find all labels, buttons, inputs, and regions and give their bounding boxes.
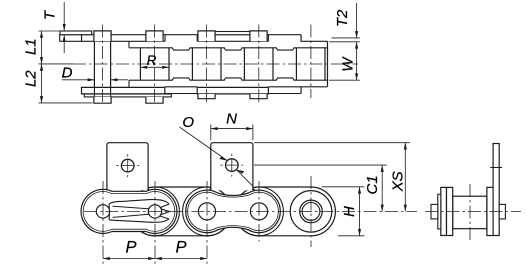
- pin cap bottom 1: [94, 97, 111, 103]
- dim XS line: [404, 143, 406, 212]
- clip plate strip near side: [84, 94, 171, 97]
- inner link plate 4-5: [235, 187, 336, 236]
- dim H extension lines: [322, 186, 365, 188]
- pin 3 vertical centerline: [206, 181, 208, 264]
- svg-text:XS: XS: [389, 171, 406, 192]
- roller at pin 4: [244, 48, 273, 80]
- arrowhead W top: [355, 42, 358, 49]
- pin 4 vertical centerline: [258, 181, 260, 242]
- svg-text:C1: C1: [364, 175, 381, 194]
- right inner plate: [487, 187, 493, 235]
- clip washer: [438, 194, 441, 229]
- pin 1 vertical centerline: [102, 181, 104, 264]
- bend line on attachment: [490, 167, 502, 169]
- wire: top outer silhouette line: [82, 34, 302, 36]
- pin 1 body: [93, 41, 95, 86]
- tab 2 hole: [226, 159, 239, 172]
- wire: inner plate left end stubs: [128, 41, 130, 48]
- wire: near outer plate 3-4: [197, 87, 268, 94]
- arrowhead T top: [63, 24, 66, 31]
- svg-text:P: P: [125, 238, 136, 256]
- centerlines of top view: [73, 25, 358, 105]
- pin cap bottom 3: [198, 94, 215, 99]
- right pin end: [499, 204, 505, 219]
- arrowhead H top: [358, 187, 361, 194]
- pin cap top 2: [146, 31, 163, 41]
- pin 3 circle: [198, 203, 215, 220]
- pin 3 centerline: [206, 25, 208, 105]
- inner plate end contour arcs at pins 2,3,4: [131, 187, 180, 236]
- arrowhead L2 bottom: [40, 96, 43, 103]
- roller at pin 3: [192, 48, 221, 80]
- arrowhead O upper: [219, 156, 227, 160]
- bent attachment plate: [493, 144, 499, 236]
- arrowhead R left: [140, 66, 147, 69]
- tab 2 leg flares: [209, 188, 256, 191]
- wire: step down at right (top): [301, 35, 327, 42]
- clip slot lines: [113, 206, 149, 217]
- arrowhead R right: [162, 66, 169, 69]
- svg-text:L1: L1: [23, 38, 40, 55]
- left inner plate: [447, 187, 453, 235]
- pin 5 vertical centerline: [310, 176, 312, 247]
- bushing at pin 5: [300, 200, 323, 223]
- arrowhead N left: [211, 127, 218, 130]
- dim W line: [356, 42, 358, 80]
- svg-text:P: P: [175, 238, 186, 256]
- arrowhead C1 bottom: [381, 205, 384, 212]
- arrowhead XS top: [404, 143, 407, 150]
- svg-text:R: R: [147, 53, 157, 68]
- end view vertical centerline: [469, 184, 471, 240]
- dim N extension lines: [210, 125, 212, 141]
- roller at pin 2: [140, 48, 169, 80]
- arrowhead XS bottom: [404, 205, 407, 212]
- dim T2 lines: [356, 3, 358, 38]
- centerlines end view: [425, 184, 521, 240]
- pin 2 centerline: [154, 25, 156, 105]
- dim P line: [103, 258, 207, 260]
- left pin end: [431, 204, 438, 219]
- dim D lines: [62, 79, 94, 81]
- svg-text:N: N: [226, 111, 237, 128]
- dim N line: [211, 128, 253, 130]
- arrowhead D right: [111, 78, 118, 81]
- end view horizontal centerline: [425, 211, 521, 213]
- centerlines side view: [84, 176, 417, 264]
- outer attachment link plate 3-4 (waisted): [186, 190, 281, 233]
- dim T lines: [63, 2, 65, 31]
- tab 1 hole: [121, 159, 134, 172]
- svg-text:H: H: [341, 206, 358, 217]
- svg-text:W: W: [340, 56, 357, 72]
- pin 1 centerline: [102, 25, 104, 105]
- dim C1 extension line: [254, 164, 387, 166]
- arrowhead H bottom: [358, 229, 361, 236]
- dim R line: [141, 66, 169, 68]
- tab 1 hole crosshair: [116, 165, 139, 167]
- dim L2 line: [41, 64, 43, 103]
- tab 1 leg flares: [105, 188, 151, 191]
- arrowhead C1 top: [381, 165, 384, 172]
- pin cap top 3: [198, 31, 215, 41]
- dim C1 line: [381, 165, 383, 211]
- pin 1 through bottom band and clip strip: [94, 87, 110, 97]
- arrowhead W bottom: [355, 73, 358, 80]
- labels side view: [125, 111, 406, 257]
- wire: bottom inner face line with waist dips: [129, 78, 328, 80]
- arrowhead T bottom: [63, 35, 66, 42]
- pin cap bottom 2: [146, 97, 163, 103]
- wire: near outer plate 1-2: [82, 87, 165, 94]
- arrowhead N right: [246, 127, 253, 130]
- wire: right end vertical edge of inner plate: [327, 41, 329, 86]
- left tab strip edge-on: [60, 31, 92, 35]
- pin 5 centerline: [310, 25, 312, 99]
- dim L1 line: [41, 31, 43, 64]
- wire: plate left end edge: [81, 35, 83, 42]
- spring clip on link 1-2: [109, 200, 169, 223]
- pin 2 vertical centerline: [154, 181, 156, 264]
- arrowhead P2 right: [200, 257, 207, 260]
- pin cap top 4: [250, 31, 267, 41]
- arrowhead L1 bottom: [40, 57, 43, 64]
- tab strip of link 3-4 edge-on: [215, 32, 251, 35]
- svg-text:T2: T2: [334, 9, 351, 27]
- wire: far plate end edges: [164, 35, 166, 42]
- roller at pin 5: [296, 48, 325, 80]
- svg-text:O: O: [182, 114, 194, 131]
- pin 1 circle: [96, 205, 109, 218]
- arrowhead D left: [88, 78, 95, 81]
- dim O leader: [180, 127, 228, 161]
- attachment tab 1: [107, 143, 148, 191]
- arrowhead L2 top: [40, 64, 43, 71]
- centerline chain axis: [73, 63, 358, 65]
- arrowhead P1 left: [103, 257, 110, 260]
- left outer plate: [441, 187, 447, 235]
- arrowhead O lower: [236, 170, 244, 174]
- wire: step up at right (bottom): [300, 87, 302, 94]
- roller cylinder: [453, 196, 487, 229]
- left stub: previous attachment plate end: [60, 35, 82, 42]
- arrowhead P1 right / P2 left: [148, 257, 155, 260]
- roller at pin 5: [290, 191, 332, 233]
- outer connecting link plate 1-2: [81, 189, 177, 233]
- wire: near inner plate edge line (gap segments): [165, 86, 197, 88]
- wire: top inner face line with waist dips: [129, 48, 328, 50]
- attachment tab 2: [211, 143, 253, 191]
- pin cap bottom 4: [250, 94, 267, 99]
- arrowhead L1 top: [40, 31, 43, 38]
- chain axis centerline: [84, 210, 417, 212]
- wire: far plate bottom edges (plate 1-2 and 3-4): [82, 40, 166, 42]
- pin 4 centerline: [258, 25, 260, 105]
- svg-text:D: D: [62, 65, 73, 82]
- arrowhead T2: [355, 31, 358, 38]
- pin cap top 1: [94, 31, 111, 41]
- tab 2 hole crosshair: [220, 164, 243, 166]
- pin 4 circle: [250, 203, 267, 220]
- dim XS extension line: [254, 142, 410, 144]
- wire: gap silhouette lines bottom: [165, 93, 197, 95]
- labels top view: [23, 9, 357, 87]
- dim L1 L2 extension lines: [39, 30, 61, 32]
- inner link plate 2-3: [131, 187, 232, 236]
- pin 2 circle: [148, 205, 161, 218]
- svg-text:L2: L2: [23, 70, 40, 87]
- dim H line: [359, 187, 361, 236]
